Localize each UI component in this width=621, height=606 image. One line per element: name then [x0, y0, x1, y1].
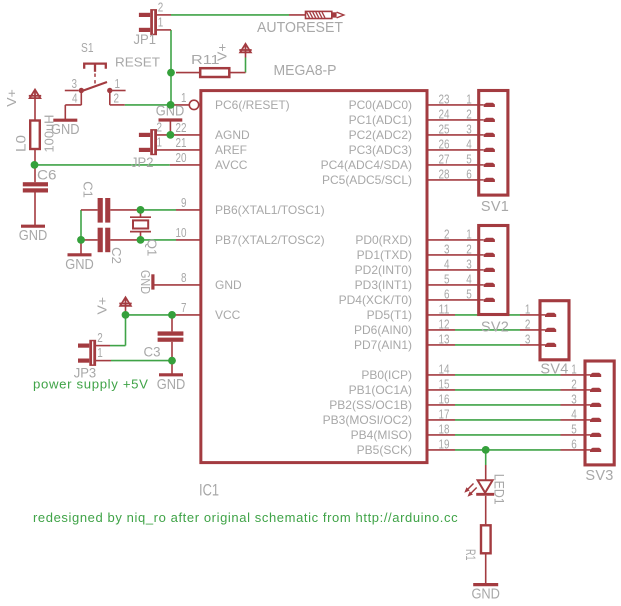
- svg-text:17: 17: [439, 407, 450, 422]
- svg-text:PD0(RXD): PD0(RXD): [355, 233, 412, 247]
- svg-text:4: 4: [466, 137, 472, 152]
- svg-text:3: 3: [571, 392, 577, 407]
- svg-text:2: 2: [444, 227, 450, 242]
- svg-text:23: 23: [439, 92, 450, 107]
- svg-text:10: 10: [176, 225, 187, 240]
- svg-text:1: 1: [466, 227, 472, 242]
- svg-text:PD7(AIN1): PD7(AIN1): [354, 338, 412, 352]
- svg-text:SV4: SV4: [540, 362, 568, 378]
- svg-text:GND: GND: [215, 278, 242, 292]
- svg-text:25: 25: [439, 122, 450, 137]
- svg-text:1: 1: [181, 90, 187, 105]
- svg-text:1: 1: [466, 92, 472, 107]
- svg-text:V+: V+: [95, 297, 110, 315]
- svg-text:2: 2: [466, 242, 472, 257]
- svg-text:PC6(/RESET): PC6(/RESET): [215, 98, 290, 112]
- svg-text:PD3(INT1): PD3(INT1): [355, 278, 412, 292]
- svg-text:RESET: RESET: [115, 54, 160, 69]
- svg-text:V+: V+: [215, 43, 230, 61]
- svg-text:PD2(INT0): PD2(INT0): [355, 263, 412, 277]
- svg-text:MEGA8-P: MEGA8-P: [274, 63, 337, 79]
- svg-text:GND: GND: [138, 270, 153, 294]
- svg-text:6: 6: [444, 287, 450, 302]
- svg-text:PB0(ICP): PB0(ICP): [361, 368, 412, 382]
- svg-text:GND: GND: [471, 587, 500, 603]
- svg-text:JP1: JP1: [134, 31, 157, 47]
- svg-text:2: 2: [466, 107, 472, 122]
- svg-text:PD5(T1): PD5(T1): [367, 308, 412, 322]
- svg-text:28: 28: [439, 167, 450, 182]
- svg-text:PD4(XCK/T0): PD4(XCK/T0): [339, 293, 412, 307]
- svg-text:1: 1: [158, 14, 164, 29]
- svg-text:21: 21: [176, 135, 187, 150]
- svg-text:GND: GND: [19, 228, 48, 244]
- svg-text:GND: GND: [51, 122, 80, 138]
- svg-text:PC4(ADC4/SDA): PC4(ADC4/SDA): [321, 158, 412, 172]
- svg-text:PB7(XTAL2/TOSC2): PB7(XTAL2/TOSC2): [215, 233, 325, 247]
- svg-text:4: 4: [466, 272, 472, 287]
- svg-text:24: 24: [439, 107, 450, 122]
- svg-text:4: 4: [571, 407, 577, 422]
- svg-text:16: 16: [439, 392, 450, 407]
- svg-text:C3: C3: [144, 345, 161, 360]
- svg-text:13: 13: [439, 332, 450, 347]
- svg-text:C1: C1: [81, 181, 96, 198]
- svg-text:3: 3: [466, 122, 472, 137]
- svg-text:22: 22: [176, 120, 187, 135]
- svg-text:GND: GND: [157, 377, 186, 393]
- svg-text:11: 11: [439, 302, 450, 317]
- svg-text:27: 27: [439, 152, 450, 167]
- svg-text:S1: S1: [81, 40, 94, 55]
- svg-text:V+: V+: [4, 89, 19, 107]
- svg-text:2: 2: [114, 90, 120, 105]
- svg-text:PD1(TXD): PD1(TXD): [357, 248, 412, 262]
- svg-text:AVCC: AVCC: [215, 158, 248, 172]
- svg-text:JP2: JP2: [131, 154, 154, 170]
- svg-text:GND: GND: [65, 257, 94, 273]
- svg-text:3: 3: [525, 332, 531, 347]
- svg-text:PB1(OC1A): PB1(OC1A): [349, 383, 412, 397]
- svg-text:PB4(MISO): PB4(MISO): [351, 428, 412, 442]
- svg-text:1: 1: [97, 345, 103, 360]
- svg-text:20: 20: [176, 150, 187, 165]
- svg-text:2: 2: [157, 119, 163, 134]
- svg-text:LED1: LED1: [491, 474, 506, 505]
- svg-text:Q1: Q1: [145, 239, 160, 256]
- svg-text:3: 3: [72, 76, 78, 91]
- svg-text:PB3(MOSI/OC2): PB3(MOSI/OC2): [323, 413, 412, 427]
- svg-text:1: 1: [157, 134, 163, 149]
- svg-text:19: 19: [439, 437, 450, 452]
- svg-text:C6: C6: [37, 168, 57, 183]
- svg-text:PB2(SS/OC1B): PB2(SS/OC1B): [329, 398, 412, 412]
- svg-text:VCC: VCC: [215, 308, 241, 322]
- svg-text:PC5(ADC5/SCL): PC5(ADC5/SCL): [322, 173, 412, 187]
- svg-text:14: 14: [439, 362, 450, 377]
- svg-text:4: 4: [72, 90, 78, 105]
- svg-text:SV2: SV2: [481, 319, 509, 335]
- svg-text:SV1: SV1: [481, 199, 509, 215]
- svg-text:2: 2: [571, 377, 577, 392]
- svg-text:5: 5: [466, 287, 472, 302]
- svg-text:PB5(SCK): PB5(SCK): [357, 443, 412, 457]
- svg-text:4: 4: [444, 257, 450, 272]
- svg-text:PC3(ADC3): PC3(ADC3): [349, 143, 412, 157]
- svg-text:18: 18: [439, 422, 450, 437]
- svg-text:L0: L0: [14, 135, 29, 152]
- svg-text:PC1(ADC1): PC1(ADC1): [349, 113, 412, 127]
- svg-text:C2: C2: [109, 247, 124, 264]
- svg-text:15: 15: [439, 377, 450, 392]
- svg-text:power supply +5V: power supply +5V: [33, 377, 149, 392]
- svg-text:AREF: AREF: [215, 143, 247, 157]
- svg-text:6: 6: [466, 167, 472, 182]
- svg-text:1: 1: [525, 302, 531, 317]
- svg-text:2: 2: [525, 317, 531, 332]
- svg-text:5: 5: [571, 422, 577, 437]
- svg-text:12: 12: [439, 317, 450, 332]
- svg-text:9: 9: [181, 195, 187, 210]
- svg-text:PD6(AIN0): PD6(AIN0): [354, 323, 412, 337]
- svg-text:3: 3: [444, 242, 450, 257]
- svg-text:26: 26: [439, 137, 450, 152]
- svg-text:2: 2: [158, 0, 164, 14]
- svg-text:1: 1: [571, 362, 577, 377]
- svg-text:6: 6: [571, 437, 577, 452]
- svg-text:PC2(ADC2): PC2(ADC2): [349, 128, 412, 142]
- svg-text:PB6(XTAL1/TOSC1): PB6(XTAL1/TOSC1): [215, 203, 325, 217]
- svg-text:PC0(ADC0): PC0(ADC0): [349, 98, 412, 112]
- svg-text:5: 5: [466, 152, 472, 167]
- svg-text:AUTORESET: AUTORESET: [257, 20, 343, 36]
- svg-text:7: 7: [181, 300, 187, 315]
- svg-text:AGND: AGND: [215, 128, 250, 142]
- svg-text:R1: R1: [463, 549, 479, 561]
- svg-text:3: 3: [466, 257, 472, 272]
- svg-text:IC1: IC1: [199, 482, 219, 500]
- svg-text:2: 2: [97, 330, 103, 345]
- svg-text:8: 8: [181, 270, 187, 285]
- svg-text:redesigned by niq_ro after ori: redesigned by niq_ro after original sche…: [33, 510, 458, 525]
- svg-text:5: 5: [444, 272, 450, 287]
- svg-text:SV3: SV3: [585, 468, 613, 484]
- svg-text:1: 1: [115, 76, 121, 91]
